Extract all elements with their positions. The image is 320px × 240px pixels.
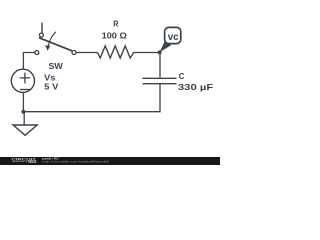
junction node at capacitor top [158,50,162,54]
resistor R [98,46,134,58]
wire: junction to ground [23,112,25,125]
svg-text:vc: vc [168,32,179,43]
capacitor C top plate [143,77,177,79]
junction node at bottom rail [21,110,25,114]
switch SW top contact [39,33,43,37]
switch SW blade [39,38,72,51]
wire: capacitor bottom to bottom rail and to ground junction [23,84,160,111]
wire: node down to capacitor top plate [159,53,161,78]
svg-text:http://circuitlab.com/c/pjkq45: http://circuitlab.com/c/pjkq45bshdk3 [42,159,109,163]
wire: Vs top to switch left contact [23,53,34,70]
CircuitLab watermark footer bar [0,156,220,165]
capacitor C bottom plate [143,83,177,85]
svg-text:R: R [113,19,118,29]
switch SW top terminal stub [41,23,43,33]
svg-text:5 V: 5 V [44,81,59,91]
probe vc pointer wedge [160,41,172,52]
svg-text:SW: SW [49,61,63,71]
switch SW left contact [35,51,39,55]
wire: switch to resistor [76,52,97,54]
switch SW actuation arrow [45,32,56,51]
voltage source Vs [11,69,34,92]
svg-text:C: C [179,71,185,81]
switch SW right contact [72,51,76,55]
wire: Vs bottom to ground junction [22,93,24,112]
svg-text:LAB: LAB [29,160,35,164]
wire: resistor to node [134,52,160,54]
svg-text:330 µF: 330 µF [178,82,213,92]
ground [13,125,37,135]
svg-text:100 Ω: 100 Ω [102,31,128,41]
probe vc box [165,27,181,43]
